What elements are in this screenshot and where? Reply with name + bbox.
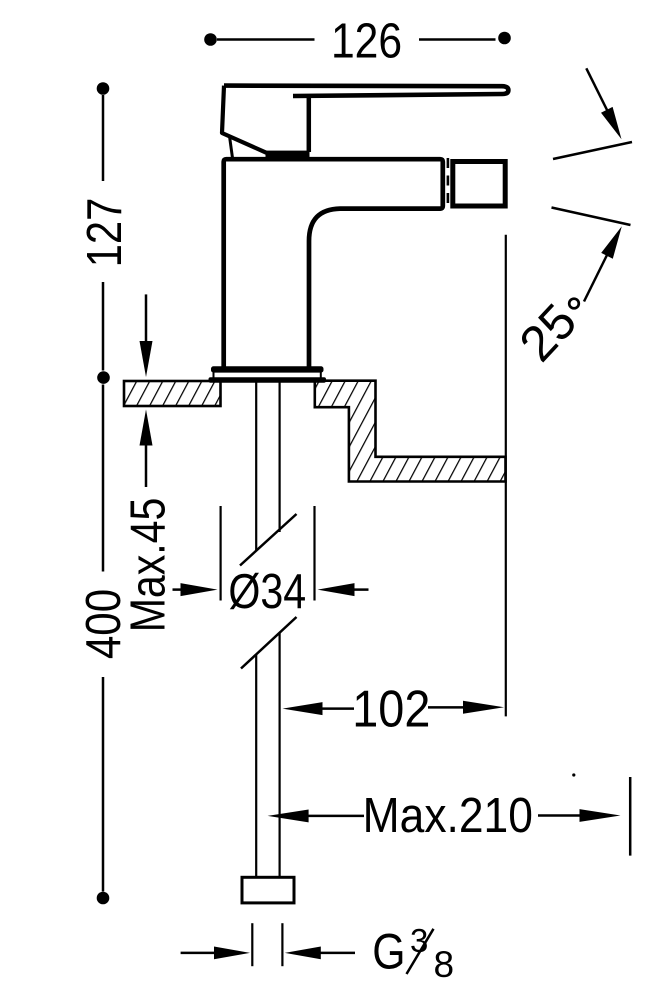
- dimension 102 right arrow: [428, 706, 463, 709]
- Max.45 down arrow: [145, 294, 148, 345]
- handle body left edge: [222, 86, 267, 153]
- handle rear lower edge: [230, 138, 233, 160]
- svg-text:102: 102: [352, 680, 430, 738]
- supply pipe left line: [255, 383, 257, 877]
- svg-text:Max.45: Max.45: [120, 498, 175, 633]
- dimension 126 left dot: [204, 33, 217, 46]
- svg-text:126: 126: [331, 13, 402, 68]
- aerator square: [453, 162, 505, 207]
- spout vertical reference line: [505, 235, 507, 717]
- G 3/8 fraction slash: [407, 929, 434, 974]
- 25 degree symbol circle: [569, 299, 579, 309]
- svg-text:Max.210: Max.210: [363, 788, 533, 842]
- escutcheon sides: [213, 370, 215, 378]
- countertop right stepped section (hatched): [315, 381, 506, 482]
- dimension Max.210 right arrow: [538, 814, 582, 817]
- left dimension bottom dot: [97, 892, 110, 905]
- svg-text:Ø34: Ø34: [228, 564, 306, 619]
- dia 34 left arrow: [173, 588, 186, 591]
- dimension 126 right dot: [498, 32, 511, 45]
- left dimension line 127/400: [102, 95, 105, 892]
- escutcheon bottom bar: [209, 377, 327, 382]
- handle front edge: [307, 96, 312, 152]
- 25 degree lower arrow: [584, 255, 607, 302]
- G 3/8 left arrow: [181, 952, 216, 955]
- handle lever: [224, 86, 508, 96]
- left dimension top dot: [97, 82, 110, 95]
- svg-text:G: G: [372, 923, 405, 979]
- 25 degree upper extension line: [553, 142, 632, 159]
- Max.45 up arrow: [140, 410, 153, 446]
- 25 degree upper arrow: [586, 68, 612, 120]
- stray ink speck: [572, 773, 575, 776]
- dimension Max.210 left arrow: [268, 810, 309, 823]
- 25 degree lower extension line: [552, 208, 631, 226]
- Max.210 right tick: [629, 777, 632, 856]
- escutcheon top bar: [211, 366, 324, 372]
- bottom fitting: [242, 877, 294, 903]
- dimension 126 line: [217, 38, 496, 41]
- dia 34 right arrow: [318, 583, 355, 596]
- countertop left slab (hatched): [124, 381, 221, 406]
- pipe break slash upper: [240, 514, 297, 566]
- dia 34 extension ticks: [220, 506, 222, 601]
- pipe break slash lower: [241, 617, 297, 669]
- handle base black bar: [266, 151, 310, 158]
- left dimension middle dot: [97, 371, 110, 384]
- aerator joint dashes: [447, 158, 450, 208]
- G 3/8 right arrow: [285, 947, 321, 960]
- svg-text:8: 8: [434, 944, 455, 985]
- dimension 102 left arrow: [283, 702, 323, 715]
- svg-text:127: 127: [77, 198, 132, 267]
- supply pipe right line: [279, 383, 281, 877]
- faucet body outline: [224, 159, 443, 368]
- G 3/8 ticks: [251, 923, 253, 966]
